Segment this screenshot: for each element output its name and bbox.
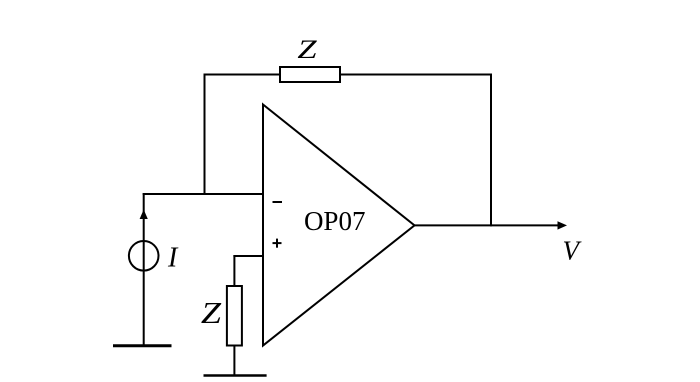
label Z (grounding impedance value): [201, 297, 222, 330]
svg-text:Z: Z: [297, 35, 317, 64]
svg-text:I: I: [167, 243, 179, 274]
svg-text:V: V: [563, 236, 583, 266]
ground (under current source): [113, 344, 172, 347]
wire: non-inverting input vertical drop: [233, 255, 235, 287]
wire: feedback left vertical drop: [204, 74, 206, 196]
svg-text:Z: Z: [201, 297, 222, 330]
wire: feedback top, right segment: [339, 74, 492, 76]
wire: feedback right vertical drop to output: [490, 74, 492, 227]
ground (under resistor Z2): [204, 374, 267, 377]
label Z (feedback impedance value): [297, 35, 317, 64]
output arrowhead: [558, 221, 568, 229]
wire: non-inverting input horizontal: [233, 255, 263, 257]
wire: current source vertical branch: [143, 193, 145, 346]
wire: inverting input node horizontal: [143, 193, 264, 195]
op-amp U1 inverting pin mark (minus): [273, 201, 283, 203]
wire: resistor Z2 to ground: [233, 345, 235, 376]
resistor Z1 (feedback impedance): [280, 67, 340, 82]
wire: output horizontal: [414, 224, 560, 226]
op-amp U1 triangle body: [263, 105, 415, 346]
svg-text:OP07: OP07: [304, 206, 366, 236]
resistor Z2 (grounding impedance, vertical): [227, 286, 242, 346]
wire: feedback top, left segment: [204, 74, 282, 76]
current source I1 (circle): [129, 241, 159, 271]
current source I1 arrowhead (upward): [140, 210, 148, 220]
op-amp U1 non-inverting pin mark (plus): [273, 239, 282, 248]
